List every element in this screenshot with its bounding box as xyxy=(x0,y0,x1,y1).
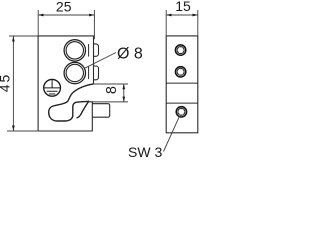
dim 8 arrow bottom xyxy=(122,97,125,102)
dim 15 line xyxy=(166,14,198,16)
dim 15 arrow left xyxy=(166,14,171,17)
dim 25 arrow right xyxy=(89,14,94,17)
circle opening 1 outer xyxy=(64,40,85,61)
jaw top edge xyxy=(89,101,94,103)
leader line SW 3 xyxy=(164,117,180,152)
earthing symbol circle xyxy=(44,79,61,96)
dim 25 line xyxy=(38,14,94,16)
svg-text:25: 25 xyxy=(56,0,72,14)
dim 45 line xyxy=(12,36,14,131)
screw head 3 xyxy=(176,107,186,117)
right view body xyxy=(166,36,198,133)
left view body outline xyxy=(38,36,93,131)
dim 45 arrow top xyxy=(12,36,15,41)
tab 1 (upper right lug) xyxy=(94,44,99,56)
dim 25 extension lines xyxy=(38,10,94,39)
dim 25 arrow left xyxy=(38,14,43,17)
hole edge line lower xyxy=(88,67,90,80)
circle opening 2 outer xyxy=(64,62,85,83)
dim 8 arrow top xyxy=(122,84,125,89)
lower jaw tip rectangle xyxy=(92,104,109,117)
svg-text:45: 45 xyxy=(0,73,13,93)
svg-text:15: 15 xyxy=(175,0,191,14)
circle opening 1 inner xyxy=(66,42,83,59)
right view divider 1 xyxy=(166,82,198,84)
circle opening 2 inner xyxy=(66,64,83,81)
svg-text:8: 8 xyxy=(104,86,120,94)
hole edge line upper xyxy=(88,44,90,57)
dim 45 arrow bottom xyxy=(12,126,15,131)
screw head 1 xyxy=(175,45,185,55)
leader line diameter 8 xyxy=(85,53,116,69)
dim 15 arrow right xyxy=(193,14,198,17)
tab 2 (lower right lug) xyxy=(94,66,99,80)
claw tooth slot edge xyxy=(77,101,90,118)
svg-text:SW 3: SW 3 xyxy=(128,144,162,160)
right view divider 2 xyxy=(166,102,198,104)
dim 8 line xyxy=(123,84,125,102)
screw head 2 xyxy=(175,67,185,77)
dim 8 extension lines xyxy=(94,84,129,102)
dim 45 extension lines xyxy=(7,36,38,131)
earthing symbol stem xyxy=(44,80,60,94)
svg-text:Ø 8: Ø 8 xyxy=(117,46,143,63)
claw cavity profile xyxy=(49,84,94,121)
dim 15 extension lines xyxy=(166,10,198,36)
